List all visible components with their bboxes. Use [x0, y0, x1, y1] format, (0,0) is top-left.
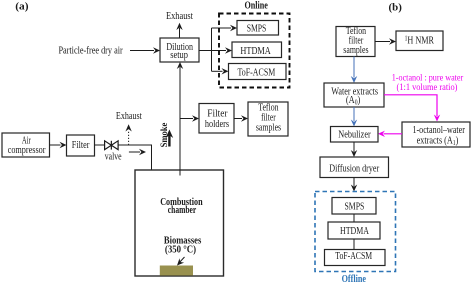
- svg-text:(A0): (A0): [346, 94, 361, 106]
- svg-text:HTDMA: HTDMA: [240, 46, 271, 57]
- wire filter to valve: [95, 144, 105, 146]
- svg-text:ToF-ACSM: ToF-ACSM: [238, 67, 276, 78]
- wire octanol extracts to nebulizer magenta: [378, 131, 402, 137]
- svg-text:SMPS: SMPS: [345, 202, 365, 213]
- wire teflon to NMR: [375, 38, 396, 44]
- svg-text:compressor: compressor: [8, 145, 46, 156]
- box diffusion dryer: [320, 157, 389, 178]
- wire smoke to dilution: [177, 62, 183, 176]
- wire dilution to exhaust: [176, 23, 182, 38]
- valve: [105, 141, 119, 150]
- arrow to biomass sample: [177, 257, 185, 266]
- label (b): [389, 3, 403, 14]
- svg-text:1-octanol : pure water: 1-octanol : pure water: [392, 72, 464, 82]
- svg-text:samples: samples: [256, 123, 281, 134]
- biomass sample: [160, 266, 193, 276]
- box SMPS (online): [237, 21, 279, 36]
- flow direction arrow: [129, 149, 146, 155]
- wire dry air to dilution: [130, 47, 160, 53]
- svg-text:valve: valve: [105, 152, 122, 163]
- svg-text:Exhaust: Exhaust: [166, 11, 193, 22]
- dashed box offline blue: [315, 192, 396, 272]
- svg-text:HTDMA: HTDMA: [340, 226, 370, 237]
- label Exhaust (valve): [116, 111, 142, 122]
- svg-text:Particle-free dry air: Particle-free dry air: [58, 45, 123, 56]
- label octanol pure water ratio magenta: [392, 72, 464, 92]
- wire smoke branch to filter holders: [180, 115, 199, 121]
- wire branch to ToF-ACSM: [212, 68, 229, 74]
- wire valve to chamber: [118, 145, 151, 207]
- svg-text:Offline: Offline: [342, 274, 367, 284]
- wire water extracts to nebulizer blue: [351, 107, 357, 127]
- svg-text:(1:1 volume ratio): (1:1 volume ratio): [397, 82, 458, 92]
- wire exhaust vent dotted: [125, 124, 131, 145]
- box ToF-ACSM (online): [229, 64, 287, 80]
- box filter holders: [199, 104, 234, 134]
- box filter: [67, 135, 95, 156]
- svg-text:(a): (a): [15, 1, 29, 12]
- svg-text:ToF-ACSM: ToF-ACSM: [335, 251, 372, 262]
- label (a): [15, 1, 29, 12]
- svg-text:samples: samples: [343, 45, 368, 56]
- label particle-free dry air: [58, 45, 123, 56]
- smoke direction arrow bold: [166, 130, 174, 147]
- box 1H NMR: [396, 31, 443, 51]
- svg-text:Nebulizer: Nebulizer: [338, 130, 371, 141]
- box octanol-water extracts: [402, 122, 470, 147]
- box combustion chamber: [135, 170, 224, 276]
- wire teflon to water extracts blue: [351, 57, 357, 84]
- box nebulizer: [331, 127, 379, 143]
- svg-text:(350 °C): (350 °C): [165, 245, 196, 256]
- svg-text:Water extracts: Water extracts: [331, 86, 378, 97]
- svg-text:setup: setup: [170, 50, 188, 61]
- svg-text:Filter: Filter: [72, 140, 90, 151]
- label Exhaust (dilution): [166, 11, 193, 22]
- wire water extracts to octanol extracts magenta: [384, 95, 440, 122]
- wire branch to HTDMA: [212, 47, 233, 53]
- wire dilution to online branch: [199, 28, 212, 71]
- box teflon filter samples (a): [248, 102, 288, 136]
- svg-text:Filter: Filter: [207, 109, 228, 120]
- dashed box online: [219, 14, 290, 88]
- svg-text:extracts (A1): extracts (A1): [417, 135, 459, 148]
- svg-text:Online: Online: [245, 1, 269, 12]
- label combustion chamber: [160, 197, 203, 216]
- wire HTDMA to ToF-ACSM: [353, 239, 355, 250]
- box ToF-ACSM (offline): [325, 250, 386, 266]
- label Offline: [342, 274, 367, 284]
- svg-text:holders: holders: [205, 119, 229, 130]
- box dilution setup: [160, 38, 199, 62]
- wire filter holders to teflon samples: [234, 115, 248, 121]
- label valve: [105, 152, 122, 163]
- svg-text:Diffusion dryer: Diffusion dryer: [329, 164, 379, 175]
- wire SMPS to HTDMA: [353, 214, 355, 222]
- wire nebulizer to diffusion dryer: [351, 142, 357, 157]
- svg-text:SMPS: SMPS: [247, 24, 267, 35]
- box HTDMA (online): [232, 42, 282, 58]
- box water extracts: [324, 83, 384, 107]
- svg-text:Exhaust: Exhaust: [116, 111, 142, 122]
- box teflon filter samples (b): [336, 26, 375, 57]
- box air compressor: [2, 133, 50, 157]
- label Online: [245, 1, 269, 12]
- svg-text:chamber: chamber: [168, 205, 197, 216]
- wire compressor to filter: [50, 142, 67, 148]
- wire diffusion dryer to offline: [351, 178, 357, 192]
- box SMPS (offline): [332, 198, 376, 215]
- svg-text:1H NMR: 1H NMR: [405, 35, 435, 46]
- label Smoke: [160, 123, 170, 148]
- box HTDMA (offline): [328, 222, 380, 239]
- svg-text:(b): (b): [389, 3, 403, 14]
- wire branch to SMPS: [212, 25, 238, 31]
- label biomasses: [164, 236, 201, 256]
